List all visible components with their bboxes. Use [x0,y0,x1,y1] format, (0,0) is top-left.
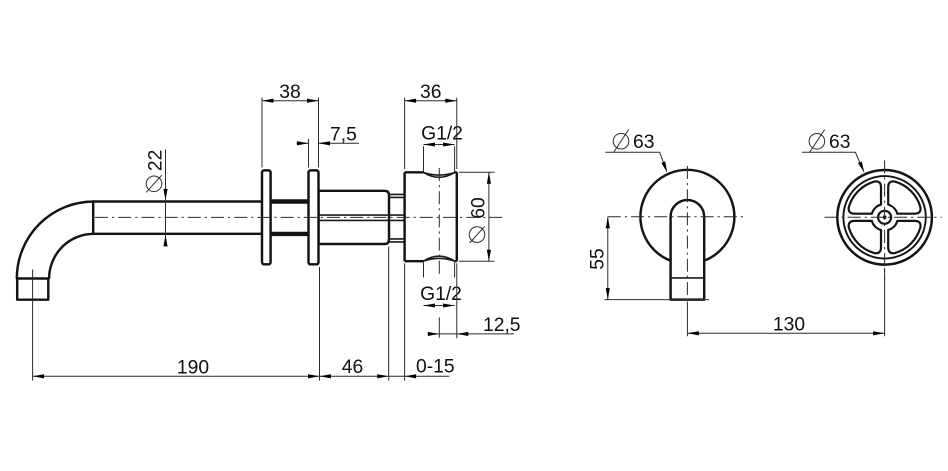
svg-text:36: 36 [420,82,441,103]
svg-text:190: 190 [177,357,209,378]
svg-text:63: 63 [633,132,654,153]
svg-text:63: 63 [829,132,850,153]
svg-text:46: 46 [342,357,363,378]
svg-text:G1/2: G1/2 [421,123,463,144]
svg-text:22: 22 [146,150,167,171]
svg-text:12,5: 12,5 [483,315,521,336]
svg-text:130: 130 [773,314,805,335]
svg-text:7,5: 7,5 [330,125,357,146]
svg-text:0-15: 0-15 [416,357,455,378]
svg-text:60: 60 [469,197,490,218]
svg-text:G1/2: G1/2 [420,284,462,305]
svg-text:55: 55 [588,248,609,269]
svg-text:38: 38 [279,82,300,103]
